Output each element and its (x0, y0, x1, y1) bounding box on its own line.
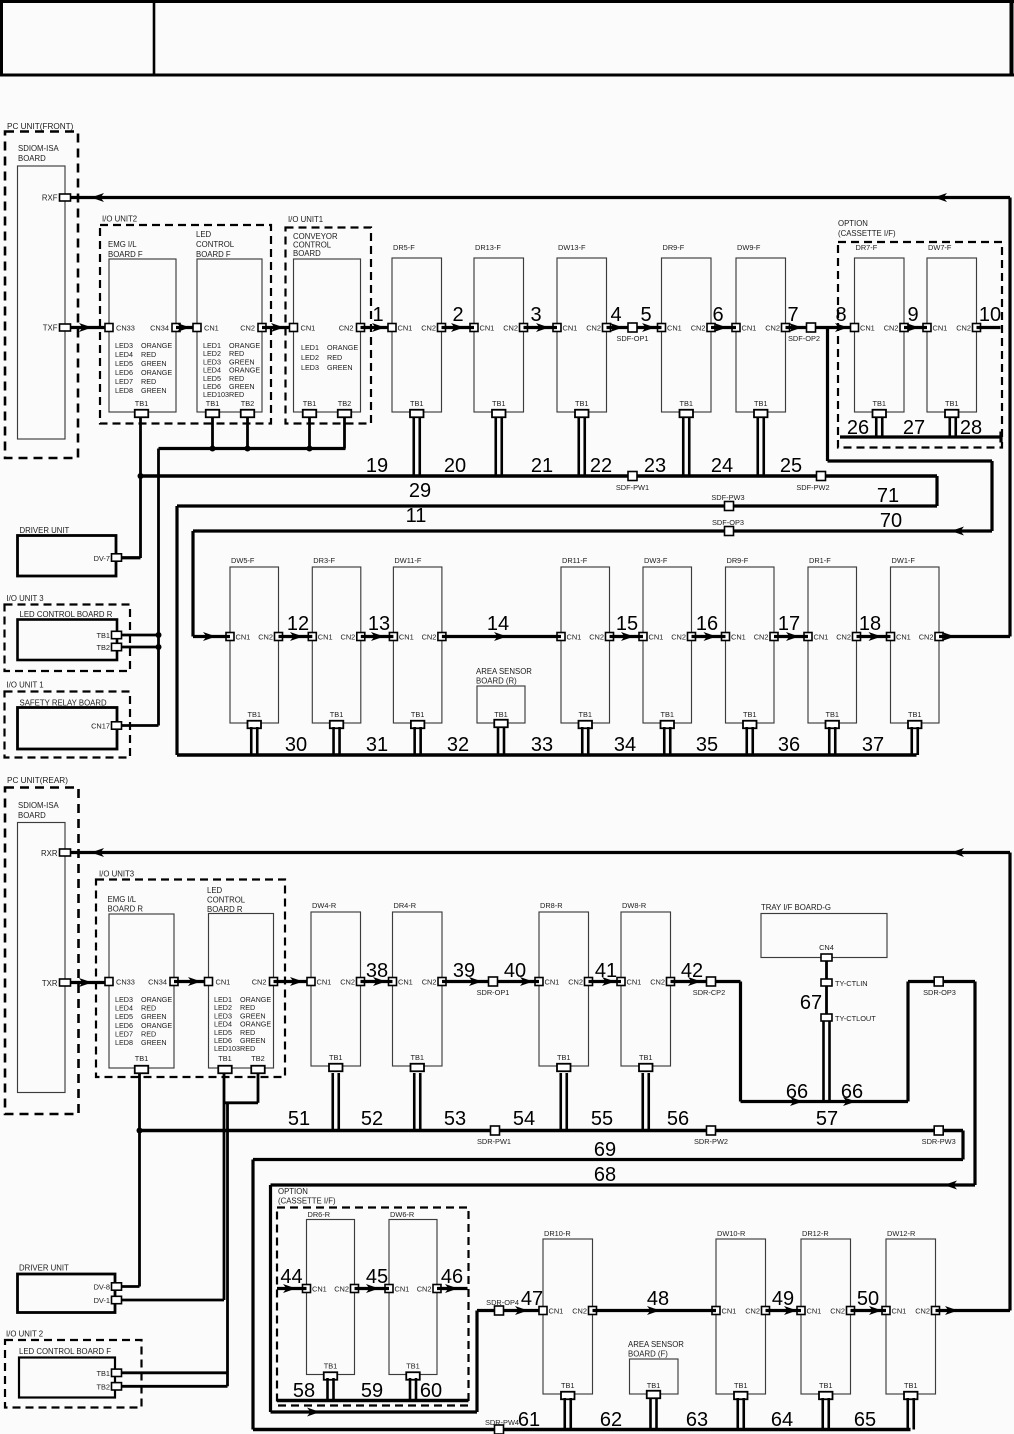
svg-text:I/O UNIT2: I/O UNIT2 (102, 215, 137, 224)
svg-text:DW6-R: DW6-R (390, 1210, 414, 1219)
svg-text:TB1: TB1 (660, 710, 674, 719)
svg-text:DR6-R: DR6-R (308, 1210, 331, 1219)
svg-text:(CASSETTE I/F): (CASSETTE I/F) (278, 1197, 336, 1206)
svg-text:SDIOM-ISA: SDIOM-ISA (18, 144, 60, 153)
svg-text:52: 52 (361, 1108, 383, 1130)
svg-text:49: 49 (772, 1288, 794, 1310)
svg-text:LED CONTROL BOARD F: LED CONTROL BOARD F (19, 1347, 111, 1356)
svg-text:DR8-R: DR8-R (540, 901, 563, 910)
svg-text:CN1: CN1 (236, 633, 251, 642)
svg-text:CN34: CN34 (148, 978, 167, 987)
svg-text:DR3-F: DR3-F (313, 556, 335, 565)
svg-text:LED: LED (196, 230, 212, 239)
svg-text:DW7-F: DW7-F (928, 243, 952, 252)
svg-text:DR10-R: DR10-R (544, 1229, 571, 1238)
svg-text:TB1: TB1 (324, 1362, 338, 1371)
svg-text:CN2: CN2 (422, 633, 437, 642)
svg-text:TB1: TB1 (578, 710, 592, 719)
svg-text:20: 20 (444, 455, 466, 477)
svg-text:CN1: CN1 (627, 978, 642, 987)
svg-text:CN2: CN2 (258, 633, 273, 642)
svg-text:TB1: TB1 (329, 1053, 343, 1062)
svg-text:4: 4 (610, 304, 621, 326)
svg-text:SDF-OP3: SDF-OP3 (712, 518, 744, 527)
svg-text:45: 45 (366, 1266, 388, 1288)
svg-text:CN33: CN33 (116, 324, 135, 333)
svg-text:CN1: CN1 (563, 324, 578, 333)
svg-text:CN2: CN2 (340, 978, 355, 987)
svg-text:CN1: CN1 (667, 324, 682, 333)
svg-text:ORANGE: ORANGE (141, 368, 172, 377)
svg-text:CN1: CN1 (807, 1307, 822, 1316)
svg-text:DW9-F: DW9-F (737, 243, 761, 252)
svg-text:CN1: CN1 (395, 1285, 410, 1294)
svg-text:58: 58 (293, 1380, 315, 1402)
svg-text:CN1: CN1 (318, 633, 333, 642)
svg-text:TXR: TXR (42, 979, 58, 988)
svg-text:CN1: CN1 (301, 324, 316, 333)
svg-text:18: 18 (859, 613, 881, 635)
svg-text:CN2: CN2 (884, 324, 899, 333)
svg-text:TB1: TB1 (96, 1369, 110, 1378)
svg-text:TB1: TB1 (557, 1053, 571, 1062)
svg-text:CN1: CN1 (892, 1307, 907, 1316)
svg-text:CN2: CN2 (650, 978, 665, 987)
svg-text:TB1: TB1 (945, 399, 959, 408)
svg-text:3: 3 (530, 304, 541, 326)
svg-text:CN2: CN2 (503, 324, 518, 333)
svg-text:LED8: LED8 (115, 386, 133, 395)
svg-text:TB1: TB1 (679, 399, 693, 408)
svg-text:CN2: CN2 (691, 324, 706, 333)
svg-text:34: 34 (614, 734, 636, 756)
svg-text:SDF-OP2: SDF-OP2 (788, 334, 820, 343)
svg-text:22: 22 (590, 455, 612, 477)
svg-text:33: 33 (531, 734, 553, 756)
svg-text:ORANGE: ORANGE (327, 343, 358, 352)
svg-text:DW12-R: DW12-R (887, 1229, 915, 1238)
svg-text:15: 15 (616, 613, 638, 635)
svg-text:47: 47 (521, 1288, 543, 1310)
svg-text:TRAY I/F BOARD-G: TRAY I/F BOARD-G (761, 903, 831, 912)
svg-text:RXF: RXF (42, 194, 58, 203)
svg-text:CN2: CN2 (572, 1307, 587, 1316)
svg-text:57: 57 (816, 1108, 838, 1130)
svg-text:CONTROL: CONTROL (196, 240, 235, 249)
svg-text:LED2: LED2 (301, 353, 319, 362)
svg-text:BOARD: BOARD (18, 154, 46, 163)
svg-text:10: 10 (979, 304, 1001, 326)
svg-text:CN2: CN2 (339, 324, 354, 333)
svg-text:CN1: CN1 (398, 324, 413, 333)
svg-text:40: 40 (504, 960, 526, 982)
svg-text:TB1: TB1 (825, 710, 839, 719)
svg-text:GREEN: GREEN (327, 363, 353, 372)
svg-text:62: 62 (600, 1409, 622, 1431)
svg-text:LED: LED (207, 886, 223, 895)
svg-text:BOARD R: BOARD R (207, 905, 243, 914)
svg-text:59: 59 (361, 1380, 383, 1402)
svg-text:TB1: TB1 (904, 1381, 918, 1390)
svg-text:51: 51 (288, 1108, 310, 1130)
svg-text:RED: RED (141, 377, 156, 386)
svg-text:26: 26 (847, 417, 869, 439)
svg-text:65: 65 (854, 1409, 876, 1431)
svg-text:DR11-F: DR11-F (562, 556, 588, 565)
svg-text:DW5-F: DW5-F (231, 556, 255, 565)
svg-text:16: 16 (696, 613, 718, 635)
svg-text:BOARD (F): BOARD (F) (628, 1350, 668, 1359)
svg-text:CN2: CN2 (334, 1285, 349, 1294)
svg-text:35: 35 (696, 734, 718, 756)
svg-text:SDR-PW3: SDR-PW3 (922, 1137, 956, 1146)
svg-text:LED3: LED3 (115, 341, 133, 350)
svg-text:CN2: CN2 (417, 1285, 432, 1294)
svg-text:LED1: LED1 (301, 343, 319, 352)
svg-text:68: 68 (594, 1164, 616, 1186)
svg-text:32: 32 (447, 734, 469, 756)
svg-text:TB1: TB1 (647, 1381, 661, 1390)
svg-text:TB1: TB1 (247, 710, 261, 719)
svg-text:5: 5 (640, 304, 651, 326)
svg-text:DW8-R: DW8-R (622, 901, 646, 910)
svg-text:BOARD F: BOARD F (108, 250, 143, 259)
svg-text:46: 46 (441, 1266, 463, 1288)
svg-text:I/O UNIT 2: I/O UNIT 2 (6, 1330, 43, 1339)
svg-text:(CASSETTE I/F): (CASSETTE I/F) (838, 229, 896, 238)
svg-text:RED: RED (240, 1044, 255, 1053)
svg-text:CN2: CN2 (919, 633, 934, 642)
svg-text:38: 38 (366, 960, 388, 982)
svg-text:27: 27 (903, 417, 925, 439)
svg-text:CN1: CN1 (649, 633, 664, 642)
svg-text:LED103: LED103 (214, 1044, 240, 1053)
svg-text:39: 39 (453, 960, 475, 982)
svg-text:CN1: CN1 (399, 633, 414, 642)
svg-text:DR7-F: DR7-F (856, 243, 878, 252)
svg-text:CN1: CN1 (480, 324, 495, 333)
svg-text:DV-7: DV-7 (94, 554, 110, 563)
svg-text:CN2: CN2 (252, 978, 267, 987)
svg-text:TB1: TB1 (303, 399, 317, 408)
svg-text:CONTROL: CONTROL (207, 896, 246, 905)
svg-text:61: 61 (518, 1409, 540, 1431)
svg-text:RED: RED (229, 390, 244, 399)
svg-text:42: 42 (681, 960, 703, 982)
svg-text:CN1: CN1 (731, 633, 746, 642)
svg-text:CN2: CN2 (589, 633, 604, 642)
svg-text:DW3-F: DW3-F (644, 556, 668, 565)
svg-text:RXR: RXR (41, 849, 58, 858)
svg-text:11: 11 (406, 505, 427, 527)
svg-text:DW10-R: DW10-R (717, 1229, 745, 1238)
svg-text:44: 44 (280, 1266, 302, 1288)
svg-text:DW13-F: DW13-F (558, 243, 586, 252)
svg-text:14: 14 (487, 613, 509, 635)
svg-text:CN1: CN1 (317, 978, 332, 987)
svg-text:TB1: TB1 (908, 710, 922, 719)
svg-text:CN2: CN2 (956, 324, 971, 333)
svg-text:OPTION: OPTION (278, 1187, 308, 1196)
svg-text:DR9-F: DR9-F (727, 556, 749, 565)
svg-text:I/O UNIT1: I/O UNIT1 (288, 215, 323, 224)
svg-text:CN1: CN1 (896, 633, 911, 642)
svg-text:SDIOM-ISA: SDIOM-ISA (18, 801, 60, 810)
svg-text:TB2: TB2 (251, 1054, 265, 1063)
svg-text:SDR-OP4: SDR-OP4 (486, 1298, 519, 1307)
svg-text:TB1: TB1 (410, 399, 424, 408)
svg-text:CN1: CN1 (814, 633, 829, 642)
svg-text:CN1: CN1 (204, 324, 219, 333)
svg-text:TB1: TB1 (492, 399, 506, 408)
svg-text:TB1: TB1 (734, 1381, 748, 1390)
svg-text:AREA SENSOR: AREA SENSOR (476, 667, 532, 676)
svg-text:60: 60 (420, 1380, 442, 1402)
svg-text:LED8: LED8 (115, 1038, 133, 1047)
svg-text:CN2: CN2 (341, 633, 356, 642)
svg-text:1: 1 (372, 304, 383, 326)
svg-text:TB1: TB1 (96, 631, 110, 640)
svg-text:DR4-R: DR4-R (394, 901, 417, 910)
svg-text:CN4: CN4 (819, 943, 834, 952)
svg-text:DV-8: DV-8 (94, 1283, 110, 1292)
svg-text:TY-CTLIN: TY-CTLIN (835, 979, 868, 988)
svg-text:DR1-F: DR1-F (809, 556, 831, 565)
svg-text:RED: RED (327, 353, 342, 362)
svg-text:TB1: TB1 (872, 399, 886, 408)
svg-text:TXF: TXF (43, 324, 58, 333)
svg-text:CN1: CN1 (933, 324, 948, 333)
svg-text:37: 37 (862, 734, 884, 756)
svg-text:TB1: TB1 (135, 1054, 149, 1063)
svg-text:CN1: CN1 (549, 1307, 564, 1316)
svg-text:DRIVER UNIT: DRIVER UNIT (20, 526, 70, 535)
svg-text:9: 9 (907, 304, 918, 326)
svg-text:SDF-PW2: SDF-PW2 (796, 483, 829, 492)
svg-text:TB1: TB1 (330, 710, 344, 719)
svg-text:CN2: CN2 (586, 324, 601, 333)
svg-text:DR5-F: DR5-F (393, 243, 415, 252)
svg-text:29: 29 (409, 480, 431, 502)
svg-text:GREEN: GREEN (141, 359, 167, 368)
svg-text:CN1: CN1 (312, 1285, 327, 1294)
svg-text:CN2: CN2 (568, 978, 583, 987)
svg-text:LED4: LED4 (115, 350, 133, 359)
svg-text:21: 21 (531, 455, 553, 477)
svg-text:TB1: TB1 (743, 710, 757, 719)
svg-text:66: 66 (786, 1081, 808, 1103)
svg-text:CN2: CN2 (754, 633, 769, 642)
svg-text:CN1: CN1 (545, 978, 560, 987)
svg-text:64: 64 (771, 1409, 793, 1431)
svg-text:GREEN: GREEN (141, 1038, 167, 1047)
svg-text:DR13-F: DR13-F (475, 243, 501, 252)
svg-text:DW1-F: DW1-F (892, 556, 916, 565)
svg-text:CN34: CN34 (150, 324, 169, 333)
svg-text:RED: RED (141, 350, 156, 359)
svg-text:CN1: CN1 (567, 633, 582, 642)
svg-text:CN2: CN2 (836, 633, 851, 642)
svg-text:55: 55 (591, 1108, 613, 1130)
svg-text:12: 12 (287, 613, 309, 635)
svg-text:ORANGE: ORANGE (141, 341, 172, 350)
svg-text:23: 23 (644, 455, 666, 477)
svg-text:DW4-R: DW4-R (312, 901, 336, 910)
svg-text:SDR-PW2: SDR-PW2 (694, 1137, 728, 1146)
svg-text:67: 67 (800, 992, 822, 1014)
svg-text:CN2: CN2 (671, 633, 686, 642)
svg-text:PC UNIT(FRONT): PC UNIT(FRONT) (7, 122, 74, 131)
svg-text:13: 13 (368, 613, 390, 635)
svg-text:TY-CTLOUT: TY-CTLOUT (835, 1014, 876, 1023)
svg-text:LED6: LED6 (115, 368, 133, 377)
svg-text:SDF-OP1: SDF-OP1 (616, 334, 648, 343)
svg-text:TB1: TB1 (575, 399, 589, 408)
svg-text:TB1: TB1 (218, 1054, 232, 1063)
svg-text:AREA SENSOR: AREA SENSOR (628, 1340, 684, 1349)
svg-text:BOARD: BOARD (18, 811, 46, 820)
svg-text:TB2: TB2 (96, 1383, 110, 1392)
svg-text:PC UNIT(REAR): PC UNIT(REAR) (7, 776, 68, 785)
svg-text:DR9-F: DR9-F (663, 243, 685, 252)
svg-text:TB1: TB1 (410, 1053, 424, 1062)
svg-text:25: 25 (780, 455, 802, 477)
svg-text:TB1: TB1 (561, 1381, 575, 1390)
svg-text:CN2: CN2 (745, 1307, 760, 1316)
svg-text:30: 30 (285, 734, 307, 756)
svg-text:48: 48 (647, 1288, 669, 1310)
svg-text:CN2: CN2 (830, 1307, 845, 1316)
svg-text:TB1: TB1 (206, 399, 220, 408)
svg-text:DW11-F: DW11-F (394, 556, 421, 565)
svg-text:I/O UNIT3: I/O UNIT3 (99, 870, 134, 879)
svg-text:CN2: CN2 (422, 978, 437, 987)
svg-text:GREEN: GREEN (141, 386, 167, 395)
svg-text:SDR-OP3: SDR-OP3 (923, 988, 956, 997)
svg-text:DV-1: DV-1 (94, 1296, 110, 1305)
svg-text:CN1: CN1 (860, 324, 875, 333)
svg-text:CN1: CN1 (216, 978, 231, 987)
svg-text:TB1: TB1 (135, 399, 149, 408)
svg-text:LED7: LED7 (115, 377, 133, 386)
svg-text:DRIVER UNIT: DRIVER UNIT (19, 1264, 69, 1273)
svg-text:70: 70 (880, 510, 902, 532)
svg-text:TB1: TB1 (411, 710, 425, 719)
svg-text:7: 7 (787, 304, 798, 326)
svg-text:BOARD: BOARD (293, 249, 321, 258)
svg-text:SDR-OP1: SDR-OP1 (477, 988, 510, 997)
svg-text:TB1: TB1 (819, 1381, 833, 1390)
svg-text:66: 66 (841, 1081, 863, 1103)
svg-text:I/O UNIT 1: I/O UNIT 1 (7, 681, 44, 690)
svg-text:CN2: CN2 (765, 324, 780, 333)
svg-text:50: 50 (857, 1288, 879, 1310)
svg-text:LED3: LED3 (301, 363, 319, 372)
svg-text:TB1: TB1 (754, 399, 768, 408)
svg-text:I/O UNIT 3: I/O UNIT 3 (7, 594, 44, 603)
svg-text:OPTION: OPTION (838, 219, 868, 228)
svg-text:31: 31 (366, 734, 388, 756)
svg-text:TB2: TB2 (241, 399, 255, 408)
svg-text:SDF-PW3: SDF-PW3 (711, 493, 744, 502)
svg-text:CN33: CN33 (116, 978, 135, 987)
svg-text:SDR-CP2: SDR-CP2 (693, 988, 725, 997)
svg-text:TB1: TB1 (494, 710, 508, 719)
svg-text:69: 69 (594, 1139, 616, 1161)
svg-text:56: 56 (667, 1108, 689, 1130)
svg-text:BOARD F: BOARD F (196, 250, 231, 259)
svg-text:CN2: CN2 (421, 324, 436, 333)
svg-text:SDR-PW1: SDR-PW1 (477, 1137, 511, 1146)
svg-text:24: 24 (711, 455, 733, 477)
svg-text:BOARD (R): BOARD (R) (476, 677, 517, 686)
svg-text:19: 19 (366, 455, 388, 477)
svg-text:CN1: CN1 (742, 324, 757, 333)
svg-text:6: 6 (712, 304, 723, 326)
svg-text:CN2: CN2 (240, 324, 255, 333)
svg-text:36: 36 (778, 734, 800, 756)
svg-text:EMG I/L: EMG I/L (108, 895, 137, 904)
svg-text:LED CONTROL BOARD R: LED CONTROL BOARD R (20, 610, 113, 619)
svg-text:TB1: TB1 (406, 1362, 420, 1371)
svg-text:CN1: CN1 (398, 978, 413, 987)
svg-text:63: 63 (686, 1409, 708, 1431)
svg-text:2: 2 (452, 304, 463, 326)
svg-text:CN1: CN1 (722, 1307, 737, 1316)
svg-text:41: 41 (595, 960, 617, 982)
svg-text:LED5: LED5 (115, 359, 133, 368)
svg-text:EMG I/L: EMG I/L (108, 240, 137, 249)
svg-text:LED103: LED103 (203, 390, 229, 399)
svg-text:CN2: CN2 (915, 1307, 930, 1316)
svg-text:53: 53 (444, 1108, 466, 1130)
svg-text:TB2: TB2 (338, 399, 352, 408)
svg-text:28: 28 (960, 417, 982, 439)
svg-text:TB2: TB2 (96, 643, 110, 652)
svg-text:TB1: TB1 (639, 1053, 653, 1062)
svg-text:BOARD R: BOARD R (108, 905, 144, 914)
svg-text:CN17: CN17 (91, 722, 110, 731)
svg-text:17: 17 (778, 613, 800, 635)
svg-text:DR12-R: DR12-R (802, 1229, 829, 1238)
svg-text:54: 54 (513, 1108, 535, 1130)
svg-text:71: 71 (877, 485, 899, 507)
svg-text:SDF-PW1: SDF-PW1 (616, 483, 649, 492)
